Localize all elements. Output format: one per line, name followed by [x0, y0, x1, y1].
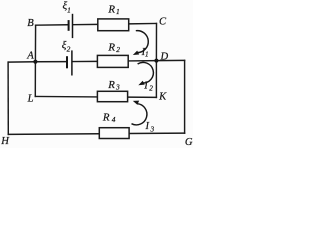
battery E1 [69, 14, 73, 38]
svg-text:R: R [107, 42, 115, 54]
svg-text:B: B [27, 18, 34, 29]
svg-text:1: 1 [67, 6, 71, 15]
wire vertical left edge (to H) [7, 61, 9, 135]
svg-text:3: 3 [150, 125, 155, 133]
current arrow I3 [132, 101, 147, 125]
svg-text:R: R [102, 111, 110, 123]
wire vertical B-A-L [34, 25, 36, 98]
wire left edge corner to node A [8, 61, 36, 63]
svg-text:C: C [159, 17, 167, 28]
wire B to battery xi1 [35, 24, 68, 26]
svg-text:H: H [0, 136, 10, 147]
svg-text:1: 1 [145, 51, 149, 59]
node D junction dot [154, 59, 158, 63]
wire vertical right edge (D row to G) [184, 60, 186, 134]
svg-text:L: L [27, 93, 34, 104]
wire R3 to K [127, 96, 157, 98]
resistor R2 [97, 55, 128, 67]
resistor R3 [97, 91, 127, 101]
svg-text:1: 1 [116, 7, 120, 16]
current arrow I1 [133, 31, 148, 55]
svg-text:2: 2 [149, 84, 153, 92]
node A junction dot [33, 60, 37, 64]
wire battery xi1 to R1 [72, 23, 98, 25]
wire node A to battery xi2 [35, 61, 66, 63]
wire node D to right edge [156, 59, 185, 61]
wire H to R4 [8, 133, 100, 136]
wire battery xi2 to R2 [72, 60, 98, 62]
svg-text:R: R [107, 4, 115, 16]
wire vertical C-D-K [155, 23, 157, 98]
svg-text:2: 2 [67, 45, 71, 54]
wire R4 to G [129, 132, 186, 134]
current arrow I2 [138, 62, 154, 85]
wire R1 to C [128, 22, 157, 24]
svg-text:I: I [143, 81, 148, 92]
wire R2 to node D [128, 60, 157, 62]
svg-text:A: A [26, 51, 34, 62]
svg-text:R: R [107, 79, 115, 91]
svg-text:I: I [145, 121, 150, 132]
svg-text:K: K [158, 91, 167, 102]
svg-text:3: 3 [115, 83, 120, 92]
wire L to R3 [35, 95, 98, 98]
svg-text:G: G [185, 137, 193, 148]
svg-text:D: D [159, 51, 168, 62]
battery E2 [67, 50, 72, 75]
svg-text:4: 4 [112, 115, 116, 124]
resistor R4 [99, 128, 129, 139]
svg-text:2: 2 [116, 45, 120, 54]
resistor R1 [98, 19, 129, 31]
